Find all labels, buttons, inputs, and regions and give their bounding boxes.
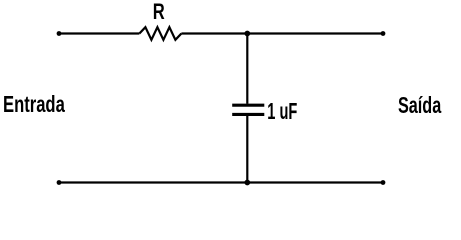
wire top right (resistor to output node) (181, 32, 383, 34)
resistor R (139, 27, 181, 40)
junction top (resistor/capacitor) (244, 31, 250, 37)
svg-text:Entrada: Entrada (3, 91, 65, 117)
svg-text:R: R (153, 0, 165, 24)
wire vertical upper (junction to capacitor) (246, 34, 248, 104)
wire vertical lower (capacitor to bottom junction) (246, 116, 248, 183)
node input bottom terminal (57, 180, 62, 185)
node output top terminal (381, 31, 386, 36)
node input top terminal (57, 31, 62, 36)
capacitor C1 bottom plate (232, 113, 264, 116)
wire bottom (return path) (59, 181, 383, 183)
capacitor C1 top plate (232, 104, 264, 107)
svg-text:1 uF: 1 uF (267, 98, 297, 124)
junction bottom (capacitor return) (244, 180, 250, 186)
node output bottom terminal (381, 180, 386, 185)
svg-text:Saída: Saída (398, 92, 441, 118)
wire top left (input node to resistor) (59, 32, 139, 34)
